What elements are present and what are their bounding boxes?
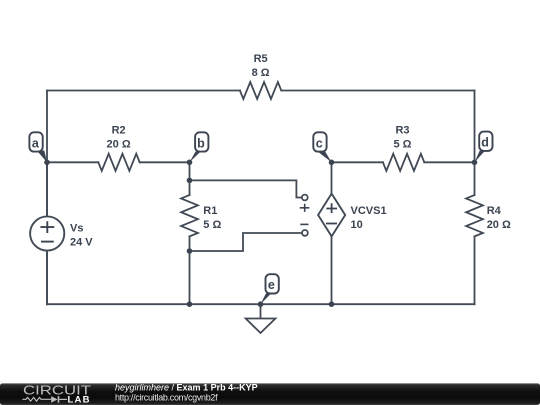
svg-text:5 Ω: 5 Ω [203,219,221,231]
resistor R5 [240,82,281,99]
junction bottom rail at R1 column [187,301,193,307]
ground stub [260,304,262,318]
svg-text:b: b [197,136,205,150]
wire bottom rail [47,303,475,305]
label R2 value [107,124,131,150]
VCVS1 plus sign [326,203,337,213]
wire R4 bottom to bottom rail [474,236,476,304]
junction R1 bottom / sense [187,248,193,254]
Vs plus sign [40,221,54,233]
wire b down through R1 stub [189,162,191,195]
ground symbol triangle [246,319,276,334]
node label a [29,132,47,162]
wire right vertical top (d column) [474,91,476,196]
svg-text:8 Ω: 8 Ω [252,67,270,79]
Vs minus sign [41,241,54,243]
wire R1 bottom to bottom rail [189,236,191,304]
wire c to R3 [332,161,383,163]
footer logo resistor squiggle [22,397,51,401]
svg-text:R5: R5 [254,53,268,65]
svg-text:d: d [481,136,489,150]
svg-text:R1: R1 [203,205,217,217]
resistor R2 [98,154,139,171]
resistor R4 [466,195,483,236]
svg-text:c: c [316,136,323,150]
svg-text:http://circuitlab.com/cgvnb2f: http://circuitlab.com/cgvnb2f [115,392,218,402]
footer logo diode [51,396,59,403]
junction node c [329,160,335,166]
wire R3 to d [424,161,474,163]
svg-text:R4: R4 [487,205,502,217]
node label c [313,132,331,162]
node label d [475,132,493,163]
wire top from left corner to R5 [47,90,240,92]
svg-text:heygirlimhere / Exam 1 Prb 4--: heygirlimhere / Exam 1 Prb 4--KYP [115,382,258,392]
wire left vertical (a column) [46,91,48,305]
junction node a [44,160,50,166]
junction R1 top / sense [187,178,193,184]
resistor R1 [181,195,198,236]
node label e [261,274,279,304]
svg-text:R3: R3 [395,124,409,136]
label R5 value [252,53,270,79]
wire sense plus from node (189.5,180.4) [190,180,302,197]
junction node e / ground [258,301,264,307]
wire Vs bottom stub [46,251,48,305]
label VCVS1 value [351,205,387,231]
wire a to R2 [47,161,98,163]
wire c down to VCVS [331,162,333,193]
wire R2 to b [140,161,190,163]
VCVS1 diamond [318,194,345,237]
svg-text:Vs: Vs [70,223,83,235]
sense minus sign [300,223,308,225]
sense terminal plus circle [302,195,308,201]
svg-text:LAB: LAB [68,395,91,405]
wire Vs top stub [46,162,48,216]
wire sense minus from node (189.5,251) [190,233,301,251]
footer bar [0,383,540,405]
svg-text:R2: R2 [112,124,126,136]
wire top from R5 to right corner [281,90,474,92]
label R4 value [487,205,511,231]
sense plus sign [300,204,310,212]
voltage source Vs circle [30,216,64,250]
svg-text:20 Ω: 20 Ω [487,219,511,231]
footer logo diode line [59,398,67,400]
label R1 value [203,205,221,231]
label Vs value [70,223,93,249]
svg-text:e: e [268,278,275,292]
junction node b [187,160,193,166]
junction node d [472,160,478,166]
svg-text:5 Ω: 5 Ω [394,139,412,151]
wire VCVS bottom to bottom rail [331,236,333,304]
junction VCVS bottom rail [329,301,335,307]
svg-text:20 Ω: 20 Ω [107,139,131,151]
label R3 value [394,124,412,150]
svg-text:VCVS1: VCVS1 [351,205,387,217]
resistor R3 [383,154,424,171]
svg-text:24 V: 24 V [70,237,93,249]
VCVS1 minus sign [326,223,337,225]
svg-text:10: 10 [351,219,363,231]
node label b [190,132,209,162]
sense terminal minus circle [302,230,308,236]
svg-text:a: a [32,136,40,150]
